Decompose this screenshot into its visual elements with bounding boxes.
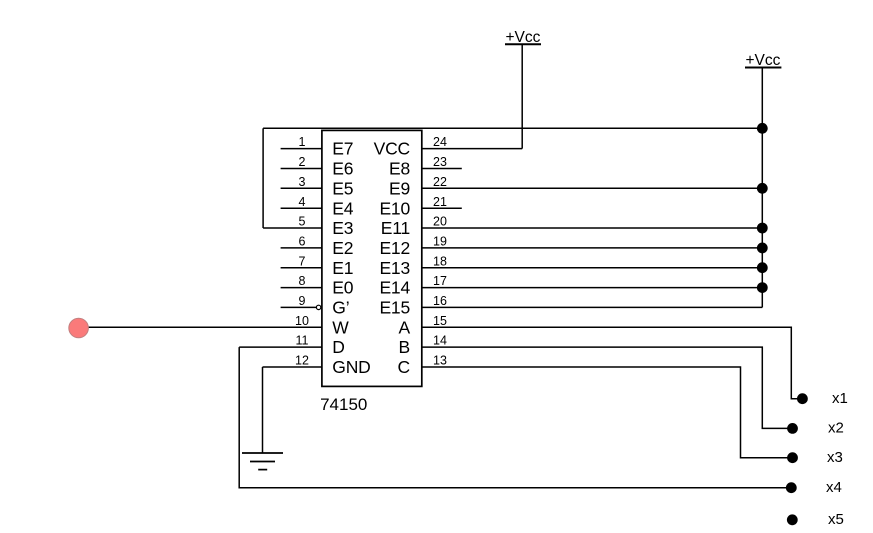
junction dot pin 22	[757, 183, 768, 194]
svg-text:14: 14	[433, 334, 447, 348]
svg-text:13: 13	[433, 354, 447, 368]
svg-text:5: 5	[299, 215, 306, 229]
svg-text:22: 22	[433, 175, 447, 189]
svg-text:x3: x3	[827, 449, 843, 466]
wire pin 12 GND down to ground	[262, 367, 264, 453]
svg-text:x2: x2	[828, 420, 844, 437]
node x3 dot	[787, 452, 798, 463]
wire pin 17 E14 to rail	[422, 287, 763, 289]
wire pin 4 stub	[281, 207, 322, 209]
wire pin 8 stub	[281, 287, 322, 289]
wire pin 20 E11 to rail	[422, 227, 763, 229]
wire pin 1 stub	[281, 148, 322, 150]
svg-text:7: 7	[299, 254, 306, 268]
wire left bus vertical pins 1-5	[262, 128, 264, 228]
svg-text:C: C	[398, 357, 410, 377]
svg-text:1: 1	[299, 135, 306, 149]
svg-text:16: 16	[433, 294, 447, 308]
svg-text:E7: E7	[332, 139, 353, 159]
svg-text:A: A	[399, 317, 411, 337]
svg-text:2: 2	[299, 155, 306, 169]
svg-text:E15: E15	[379, 298, 410, 318]
junction dot pin 18	[757, 262, 768, 273]
wire pin 5	[263, 227, 322, 229]
+Vcc 2 underline	[745, 67, 781, 69]
svg-text:6: 6	[299, 235, 306, 249]
node x1 dot	[797, 393, 808, 404]
svg-text:E13: E13	[379, 258, 410, 278]
node x5 dot	[787, 514, 798, 525]
wire pin 3 stub	[281, 187, 322, 189]
wire pin 11 D	[239, 346, 322, 348]
+Vcc 1 underline	[505, 43, 541, 45]
wire pin 6 stub	[281, 247, 322, 249]
wire pin 15 A to x1	[422, 327, 803, 398]
wire pin 12 GND	[263, 366, 322, 368]
svg-text:E3: E3	[332, 218, 353, 238]
svg-text:4: 4	[299, 195, 306, 209]
wire pin 13 C to x3	[422, 367, 793, 458]
svg-text:W: W	[332, 317, 349, 337]
svg-text:+Vcc: +Vcc	[506, 29, 541, 46]
wire pin 23 stub	[422, 168, 462, 170]
svg-text:E8: E8	[389, 159, 410, 179]
ground symbol	[242, 453, 283, 470]
node x4 dot	[786, 482, 797, 493]
svg-text:3: 3	[299, 175, 306, 189]
svg-text:E9: E9	[389, 178, 410, 198]
svg-text:9: 9	[299, 294, 306, 308]
svg-text:11: 11	[296, 334, 309, 348]
inversion bubble pin 9 G'	[316, 305, 320, 309]
svg-text:19: 19	[433, 235, 447, 249]
junction dot pin 20	[757, 223, 768, 234]
wire pin 10 W from input node	[86, 326, 322, 328]
IC U1 74150 body	[322, 130, 422, 386]
junction dot pin 19	[757, 243, 768, 254]
svg-text:VCC: VCC	[374, 139, 410, 159]
wire pin 22 E9 to rail	[422, 187, 763, 189]
wire pin 14 B to x2	[422, 347, 793, 428]
wire pin 2 stub	[281, 168, 322, 170]
wire +Vcc 1 vertical drop	[521, 45, 523, 149]
svg-text:E4: E4	[332, 198, 353, 218]
svg-text:x1: x1	[832, 390, 848, 407]
wire pin 9 stub	[281, 306, 317, 308]
wire pin 24 VCC	[422, 148, 522, 150]
svg-text:B: B	[399, 337, 410, 357]
svg-text:E14: E14	[379, 278, 410, 298]
svg-text:E1: E1	[332, 258, 353, 278]
svg-text:10: 10	[295, 314, 309, 328]
svg-text:x5: x5	[828, 511, 844, 528]
wire pin 11 D down to x4	[239, 347, 791, 488]
svg-text:12: 12	[295, 354, 309, 368]
node x2 dot	[787, 423, 798, 434]
svg-text:18: 18	[433, 254, 447, 268]
svg-text:17: 17	[433, 274, 447, 288]
wire pin 21 stub	[422, 207, 462, 209]
svg-text:E2: E2	[332, 238, 353, 258]
wire pin 18 E13 to rail	[422, 267, 763, 269]
svg-text:GND: GND	[332, 357, 370, 377]
svg-text:x4: x4	[826, 479, 842, 496]
wire top bus horizontal to +Vcc rail	[263, 127, 762, 129]
wire pin 19 E12 to rail	[422, 247, 763, 249]
junction dot bus to +Vcc rail	[757, 123, 768, 134]
wire +Vcc 2 rail vertical	[761, 69, 763, 308]
wire pin 7 stub	[281, 267, 322, 269]
svg-text:E6: E6	[332, 159, 353, 179]
junction dot pin 17	[757, 282, 768, 293]
svg-text:15: 15	[433, 314, 447, 328]
svg-text:74150: 74150	[320, 395, 367, 414]
svg-text:24: 24	[433, 135, 447, 149]
svg-text:D: D	[332, 337, 344, 357]
svg-text:E12: E12	[379, 238, 410, 258]
svg-text:21: 21	[433, 195, 447, 209]
svg-text:E5: E5	[332, 178, 353, 198]
svg-text:E0: E0	[332, 278, 353, 298]
svg-text:8: 8	[299, 274, 306, 288]
svg-text:23: 23	[433, 155, 447, 169]
wire pin 16 E15 to rail bottom	[422, 306, 763, 308]
input node red dot on W	[69, 318, 89, 338]
svg-text:G’: G’	[332, 298, 349, 318]
svg-text:+Vcc: +Vcc	[746, 52, 781, 69]
svg-text:E10: E10	[379, 198, 410, 218]
svg-text:20: 20	[433, 215, 447, 229]
svg-text:E11: E11	[381, 218, 410, 238]
